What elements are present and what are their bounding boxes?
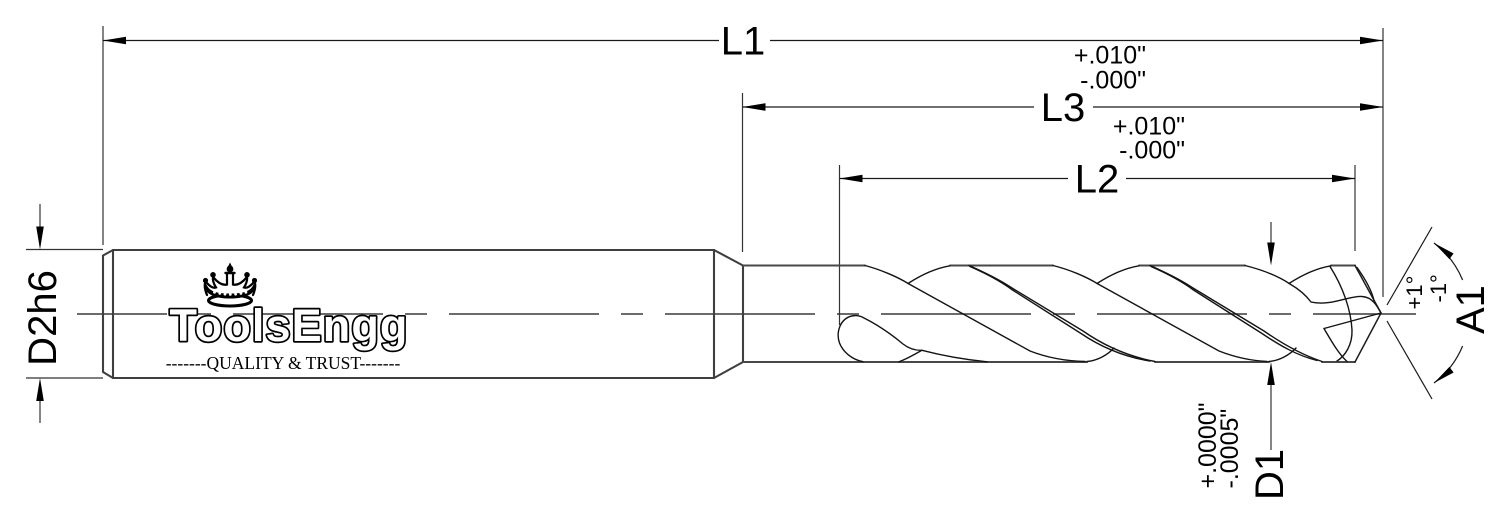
L3 dimension line (743, 106, 1384, 108)
L1/L3 right extension line (1382, 28, 1384, 297)
flute leading edge 1 (865, 266, 1085, 362)
svg-text:+1°: +1° (1402, 276, 1427, 310)
L2 right extension line (1354, 165, 1356, 251)
top dip rise 3 (1289, 266, 1331, 284)
taper to neck (714, 250, 743, 378)
point top facet line (1357, 268, 1374, 301)
D2h6 bottom horizontal extension (26, 377, 103, 379)
shank bottom edge (113, 377, 714, 379)
D2h6 top arrow (36, 227, 44, 250)
svg-text:-------QUALITY & TRUST-------: -------QUALITY & TRUST------- (166, 353, 401, 373)
svg-text:-.0005": -.0005" (1216, 409, 1244, 489)
L3 left arrow (743, 103, 766, 111)
wire: dimension lines (103, 41, 1463, 400)
drill body edges (743, 266, 1355, 363)
A1 arc top arrow (1434, 243, 1454, 259)
flute runout ear trailing branch (922, 350, 987, 362)
bottom cusp rise 1 (1087, 348, 1114, 362)
margin double line 2b (1151, 267, 1317, 361)
D2h6 bottom arrow tail (39, 400, 41, 423)
point flank arc (1324, 329, 1347, 362)
flute leading edge 2 (1053, 266, 1267, 362)
svg-text:L1: L1 (721, 20, 766, 64)
A1 upper angle line (1387, 227, 1432, 305)
wire: extension lines (26, 26, 1383, 450)
top dip rise 2 (1097, 266, 1139, 284)
svg-text:+.010": +.010" (1074, 42, 1146, 70)
L1 left arrow (103, 37, 126, 45)
svg-text:A1: A1 (1449, 285, 1493, 334)
drill point top edge (1355, 266, 1381, 314)
svg-text:ToolsEngg: ToolsEngg (169, 300, 408, 351)
svg-text:D1: D1 (1248, 449, 1292, 500)
body bottom edge segments (743, 361, 1355, 363)
L3 left extension line (742, 93, 744, 252)
D2h6 top arrow tail (39, 204, 41, 228)
flute curves (838, 266, 1381, 362)
svg-text:-1°: -1° (1426, 274, 1451, 302)
A1 lower angle line (1387, 321, 1432, 399)
L1 right arrow (1360, 37, 1383, 45)
D2h6 bottom arrow (36, 378, 44, 401)
svg-text:L3: L3 (1041, 86, 1086, 130)
L1 dimension line (103, 40, 1383, 42)
flute runout ear closing branch (899, 350, 922, 362)
body top edge segments (743, 265, 1355, 267)
bottom cusp rise 2 (1269, 348, 1296, 362)
shank chamfer tangent line (112, 250, 114, 378)
svg-text:L2: L2 (1075, 158, 1120, 202)
point flank line (1324, 313, 1381, 329)
D1 top arrow tail (1270, 222, 1272, 244)
shank right end line (713, 250, 715, 378)
arrowheads (36, 37, 1453, 401)
neck start line (742, 266, 744, 363)
L2 dimension line (840, 178, 1356, 180)
centerline (77, 313, 1416, 315)
margin double line 1b (970, 267, 1150, 362)
A1 arc lower (1434, 346, 1463, 383)
D1 bottom arrow (1267, 362, 1275, 385)
svg-text:-.000": -.000" (1080, 67, 1146, 95)
flute leading edge 3 into lip (1245, 266, 1381, 314)
point land steep line (1330, 267, 1352, 362)
flute runout ear loop (838, 316, 922, 362)
drill shank outline (103, 250, 743, 378)
margin double line 1a (969, 266, 1155, 362)
logo crown (205, 273, 256, 306)
L3 right arrow (1360, 103, 1383, 111)
svg-text:D2h6: D2h6 (21, 270, 65, 366)
D1 bottom arrow tail (1270, 383, 1272, 450)
shank top edge (113, 249, 714, 251)
L1 left extension line (102, 26, 104, 245)
shank left end face (103, 250, 113, 378)
L2 left extension line (839, 165, 841, 325)
L2 right arrow (1332, 175, 1355, 183)
A1 arc upper (1434, 243, 1463, 280)
D1 top arrow (1267, 243, 1275, 266)
margin double line 2a (1150, 266, 1322, 362)
drill point bottom edge (1355, 313, 1381, 362)
svg-text:-.000": -.000" (1119, 137, 1185, 165)
D2h6 top horizontal extension (26, 249, 103, 251)
top dip rise 1 (908, 266, 950, 284)
A1 arc bottom arrow (1434, 367, 1454, 383)
L2 left arrow (840, 175, 863, 183)
